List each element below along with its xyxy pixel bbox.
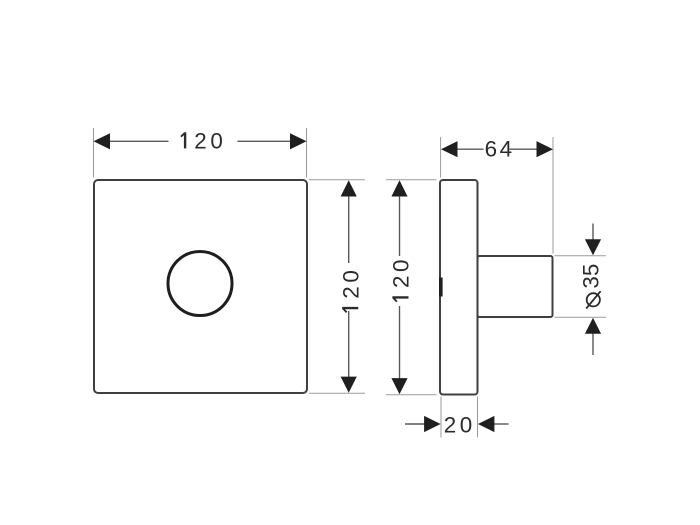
svg-text:20: 20 bbox=[338, 267, 363, 299]
svg-text:20: 20 bbox=[194, 128, 226, 153]
svg-text:64: 64 bbox=[485, 136, 515, 161]
svg-text:20: 20 bbox=[444, 413, 476, 438]
svg-text:35: 35 bbox=[578, 264, 603, 289]
svg-text:20: 20 bbox=[389, 256, 414, 288]
